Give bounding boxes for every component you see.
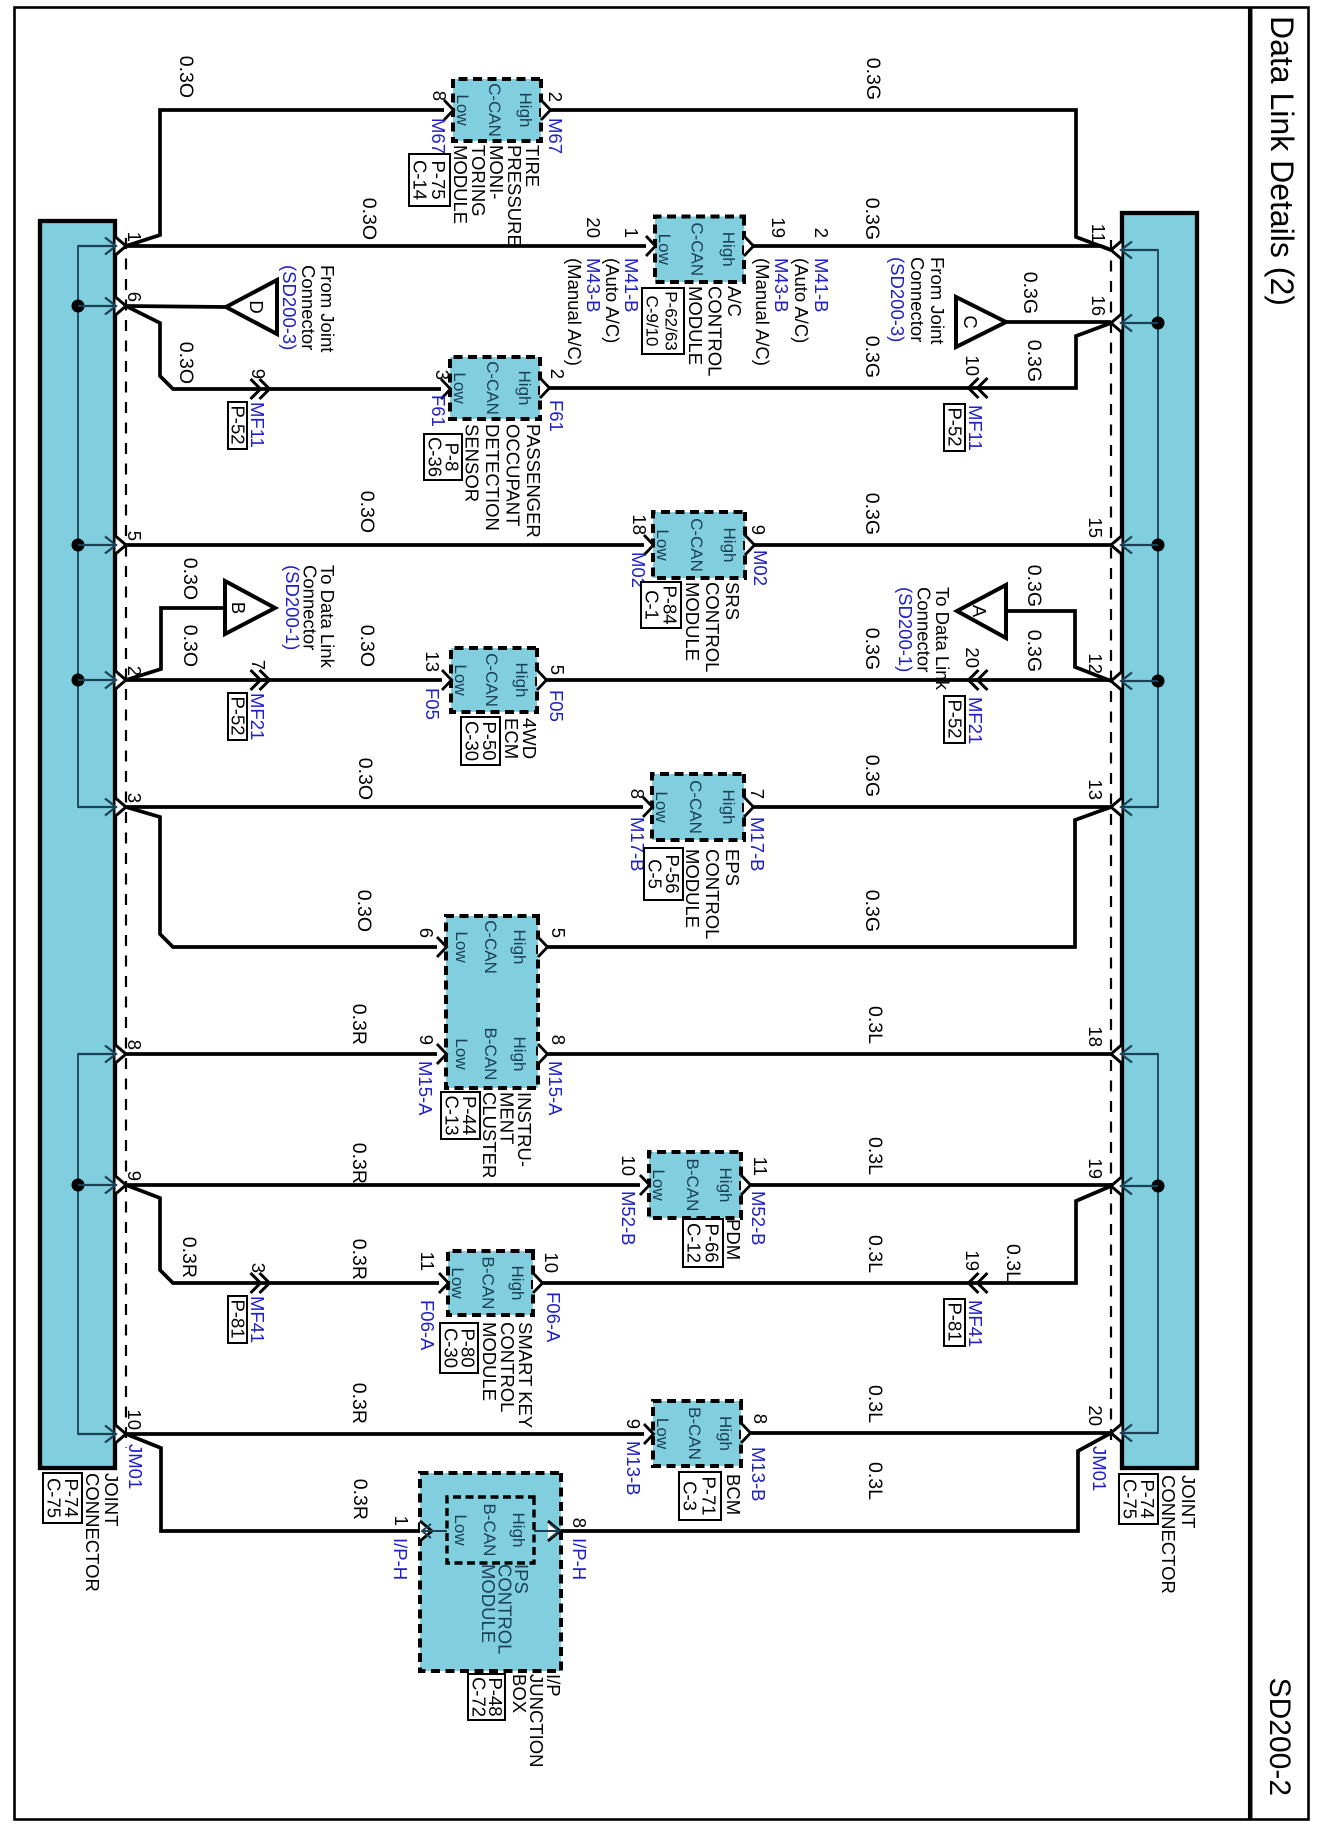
svg-text:MODULE: MODULE <box>685 286 706 365</box>
svg-text:Data Link Details (2): Data Link Details (2) <box>1264 16 1300 306</box>
triangle A (to data link connector SD200-1) <box>957 585 1006 638</box>
top bar internal C-CAN bus <box>1123 250 1158 807</box>
svg-text:0.3O: 0.3O <box>354 758 376 800</box>
wire SRS C-CAN High (0.3G) to pin 15 <box>755 543 1112 547</box>
bottom bar pin 6 <box>78 292 145 315</box>
wire size labels low side <box>348 198 380 1520</box>
wire PDM B-CAN Low (0.3R) to pin 9 <box>126 1183 640 1187</box>
svg-text:MODULE: MODULE <box>478 1564 499 1643</box>
svg-text:C: C <box>960 315 981 328</box>
wire M67 C-CAN Low (0.3O) to pin 1 <box>126 110 444 246</box>
svg-text:5: 5 <box>124 531 145 541</box>
wire smart key B-CAN High (0.3L) via MF41 to pin 19 <box>543 1186 1112 1283</box>
svg-text:High: High <box>509 1513 528 1548</box>
wire cluster B-CAN High (0.3L) to pin 18 <box>548 1052 1112 1056</box>
module M15-A instrument cluster <box>415 916 569 1178</box>
svg-text:C-30: C-30 <box>462 721 483 761</box>
svg-text:A/C: A/C <box>724 286 745 317</box>
svg-text:Low: Low <box>451 1514 470 1546</box>
svg-text:B-CAN: B-CAN <box>685 1407 704 1460</box>
svg-text:High: High <box>515 371 534 406</box>
svg-text:MF41: MF41 <box>247 1296 268 1343</box>
in-line connector MF21 pin 20 (high side) <box>944 647 988 744</box>
svg-text:M13-B: M13-B <box>623 1441 644 1496</box>
svg-text:High: High <box>716 1168 735 1203</box>
junction dot at bar pin 12 <box>1152 675 1165 688</box>
wire EPS C-CAN Low (0.3O) to pin 3 <box>126 805 643 809</box>
svg-text:(Auto A/C): (Auto A/C) <box>791 258 812 343</box>
svg-text:F61: F61 <box>428 395 449 427</box>
svg-text:12: 12 <box>1085 653 1106 674</box>
svg-text:CONTROL: CONTROL <box>705 286 726 376</box>
bottom bar pin 5 <box>78 531 145 554</box>
top bar internal B-CAN bus <box>1123 1054 1158 1433</box>
svg-text:19: 19 <box>1085 1158 1106 1179</box>
svg-text:Low: Low <box>655 234 674 266</box>
top bar pin 19 <box>1085 1158 1158 1195</box>
svg-text:P-52: P-52 <box>228 696 249 735</box>
svg-text:F06-A: F06-A <box>417 1300 438 1351</box>
top bar pin 11 <box>1088 224 1158 259</box>
svg-text:B-CAN: B-CAN <box>479 1257 498 1310</box>
wire smart key B-CAN Low (0.3R) via MF41 to pin 9 <box>126 1185 439 1283</box>
svg-text:C-72: C-72 <box>469 1677 490 1717</box>
svg-text:11: 11 <box>417 1252 438 1271</box>
svg-text:(Manual A/C): (Manual A/C) <box>752 258 773 366</box>
svg-text:F05: F05 <box>422 688 443 720</box>
svg-text:3: 3 <box>124 793 145 803</box>
svg-text:1: 1 <box>124 232 145 242</box>
svg-text:7: 7 <box>747 789 768 799</box>
svg-text:8: 8 <box>124 1040 145 1050</box>
svg-text:C-CAN: C-CAN <box>687 518 706 572</box>
module M52-B PDM <box>618 1152 771 1267</box>
svg-text:1: 1 <box>621 228 642 238</box>
svg-text:8: 8 <box>429 91 450 101</box>
svg-text:9: 9 <box>748 525 769 535</box>
svg-text:SENSOR: SENSOR <box>462 424 483 502</box>
bottom bar ref box P-74 C-75 <box>43 1473 82 1523</box>
svg-text:0.3G: 0.3G <box>862 58 884 100</box>
svg-text:0.3L: 0.3L <box>864 1385 886 1423</box>
svg-text:Low: Low <box>653 1418 672 1450</box>
svg-text:11: 11 <box>1088 224 1109 243</box>
wire size labels high side <box>861 58 886 1500</box>
svg-text:0.3G: 0.3G <box>861 198 883 240</box>
svg-text:JOINT: JOINT <box>1178 1475 1199 1528</box>
svg-text:15: 15 <box>1085 517 1106 538</box>
svg-text:I/P-H: I/P-H <box>569 1538 590 1580</box>
svg-text:7: 7 <box>248 660 269 670</box>
triangle B (to data link connector SD200-1) <box>225 581 275 634</box>
svg-text:B-CAN: B-CAN <box>481 1028 500 1081</box>
svg-text:(SD200-3): (SD200-3) <box>887 257 908 342</box>
svg-text:B-CAN: B-CAN <box>683 1159 702 1212</box>
svg-text:19: 19 <box>768 217 789 238</box>
svg-text:20: 20 <box>583 217 604 238</box>
svg-text:0.3L: 0.3L <box>864 1235 886 1273</box>
svg-text:(SD200-1): (SD200-1) <box>282 565 303 650</box>
svg-text:0.3G: 0.3G <box>861 890 883 932</box>
in-line connector MF11 pin 9 (low side) <box>228 369 270 449</box>
wire IPS B-CAN High (0.3L) to pin 20 <box>561 1433 1111 1531</box>
svg-text:M52-B: M52-B <box>618 1191 639 1246</box>
top bar pin 15 <box>1085 517 1158 554</box>
svg-text:0.3G: 0.3G <box>861 336 883 378</box>
svg-text:M43-B: M43-B <box>583 258 604 313</box>
svg-text:M52-B: M52-B <box>748 1191 769 1246</box>
svg-text:C-30: C-30 <box>441 1328 462 1368</box>
bottom bar internal C-CAN bus <box>78 246 114 807</box>
svg-text:MODULE: MODULE <box>479 1322 500 1401</box>
svg-text:C-75: C-75 <box>1120 1479 1141 1519</box>
svg-text:CONNECTOR: CONNECTOR <box>1158 1475 1179 1594</box>
bottom bar pin 9 <box>78 1171 145 1194</box>
svg-text:JM01: JM01 <box>1089 1446 1110 1491</box>
wire F61 C-CAN Low (0.3O) via MF11 to pin 6 <box>126 306 441 389</box>
svg-text:M13-B: M13-B <box>748 1447 769 1502</box>
svg-text:0.3G: 0.3G <box>1023 340 1045 382</box>
svg-text:Low: Low <box>453 94 472 126</box>
svg-text:C-CAN: C-CAN <box>481 920 500 974</box>
svg-text:M17-B: M17-B <box>747 817 768 872</box>
svg-text:P-81: P-81 <box>228 1299 249 1338</box>
svg-text:10: 10 <box>124 1409 145 1430</box>
svg-text:0.3O: 0.3O <box>356 491 378 533</box>
svg-text:P-52: P-52 <box>945 699 966 738</box>
in-line connector MF41 pin 19 (high side) <box>944 1250 988 1347</box>
svg-text:0.3R: 0.3R <box>348 1004 370 1045</box>
svg-text:0.3G: 0.3G <box>1019 272 1041 314</box>
svg-text:(Manual A/C): (Manual A/C) <box>564 258 585 366</box>
svg-text:M41-B: M41-B <box>621 258 642 313</box>
svg-text:8: 8 <box>627 789 648 799</box>
svg-text:SRS: SRS <box>722 582 743 620</box>
svg-text:B-CAN: B-CAN <box>480 1504 499 1557</box>
svg-text:16: 16 <box>1088 295 1109 316</box>
svg-text:C-3: C-3 <box>680 1481 701 1511</box>
wire from triangle A to pin 12 <box>1006 611 1111 681</box>
svg-text:A: A <box>969 605 990 618</box>
svg-text:(Auto A/C): (Auto A/C) <box>602 258 623 343</box>
wire cluster C-CAN High (0.3G) to pin 13 <box>548 807 1112 947</box>
svg-text:0.3O: 0.3O <box>175 342 197 384</box>
joint connector JM01 (bottom bar, low side) <box>40 221 115 1468</box>
wire PDM B-CAN High (0.3L) to pin 19 <box>751 1183 1112 1187</box>
svg-text:MODULE: MODULE <box>682 582 703 661</box>
svg-text:Connector: Connector <box>298 265 319 350</box>
svg-text:C-1: C-1 <box>642 590 663 620</box>
junction dot at bar pin 5 <box>72 539 85 552</box>
svg-text:2: 2 <box>545 92 566 102</box>
svg-text:JOINT: JOINT <box>101 1473 122 1526</box>
svg-text:10: 10 <box>541 1252 562 1273</box>
module M13-B BCM <box>623 1401 771 1520</box>
svg-text:Low: Low <box>448 1267 467 1299</box>
junction dot at bar pin 15 <box>1152 539 1165 552</box>
dashed line above bottom bar <box>125 238 127 1448</box>
svg-text:High: High <box>719 232 738 267</box>
svg-text:MF11: MF11 <box>247 402 268 448</box>
svg-text:0.3G: 0.3G <box>861 493 883 535</box>
svg-text:BCM: BCM <box>723 1474 744 1515</box>
svg-text:6: 6 <box>124 292 145 302</box>
svg-text:C-CAN: C-CAN <box>482 653 501 707</box>
svg-text:F61: F61 <box>546 400 567 432</box>
svg-text:Low: Low <box>451 664 470 696</box>
svg-text:C-13: C-13 <box>442 1095 463 1135</box>
svg-text:PASSENGER: PASSENGER <box>523 424 544 538</box>
wire from pin 6 to triangle D <box>126 306 226 307</box>
svg-text:PDM: PDM <box>723 1219 744 1260</box>
svg-text:M43-B: M43-B <box>771 258 792 313</box>
svg-text:2: 2 <box>124 666 145 676</box>
wire from triangle C to pin 16 <box>1006 320 1111 324</box>
svg-text:(SD200-3): (SD200-3) <box>279 265 300 350</box>
junction dot at bar pin 6 <box>72 300 85 313</box>
in-line connector MF21 pin 7 (low side) <box>228 660 270 741</box>
svg-text:JM01: JM01 <box>125 1444 146 1489</box>
svg-text:MODULE: MODULE <box>450 145 471 224</box>
svg-text:Low: Low <box>653 529 672 561</box>
svg-text:F06-A: F06-A <box>543 1292 564 1343</box>
svg-text:2: 2 <box>547 369 568 379</box>
junction dot at bar pin 16 <box>1152 317 1165 330</box>
svg-text:From Joint: From Joint <box>317 265 338 352</box>
svg-text:M41-B: M41-B <box>811 258 832 313</box>
triangle C (from joint connector SD200-3) <box>956 297 1006 347</box>
svg-text:0.3O: 0.3O <box>353 890 375 932</box>
top bar pin 18 <box>1085 1026 1158 1063</box>
svg-text:P-81: P-81 <box>945 1302 966 1341</box>
svg-text:3: 3 <box>432 370 453 380</box>
svg-text:0.3G: 0.3G <box>861 628 883 670</box>
wire from pin 2 to triangle B <box>126 608 225 680</box>
svg-text:High: High <box>510 930 529 965</box>
svg-text:CONTROL: CONTROL <box>702 582 723 672</box>
svg-text:20: 20 <box>1085 1405 1106 1426</box>
svg-text:OCCUPANT: OCCUPANT <box>503 424 524 526</box>
wire size labels near top bar <box>1002 272 1045 1282</box>
svg-text:SD200-2: SD200-2 <box>1263 1678 1296 1796</box>
svg-text:High: High <box>516 93 535 128</box>
svg-text:CONNECTOR: CONNECTOR <box>82 1473 103 1592</box>
svg-text:MF21: MF21 <box>965 697 986 744</box>
svg-text:13: 13 <box>422 651 443 672</box>
joint connector JM01 (top bar, C-CAN/B-CAN high side) <box>1122 213 1197 1468</box>
svg-text:C-5: C-5 <box>645 859 666 889</box>
svg-text:C-36: C-36 <box>425 437 446 477</box>
wire F61 C-CAN High (0.3G) via MF11 to pin 16 <box>550 323 1112 388</box>
svg-text:9: 9 <box>416 1035 437 1045</box>
svg-text:13: 13 <box>1085 779 1106 800</box>
svg-text:C-CAN: C-CAN <box>483 361 502 415</box>
svg-text:8: 8 <box>548 1035 569 1045</box>
svg-text:10: 10 <box>618 1155 639 1176</box>
svg-text:0.3O: 0.3O <box>179 625 201 667</box>
wire M67 C-CAN High (0.3G) to pin 11 <box>551 110 1112 250</box>
svg-text:F05: F05 <box>546 690 567 722</box>
svg-text:ECM: ECM <box>501 718 522 759</box>
svg-text:M15-A: M15-A <box>415 1061 436 1116</box>
svg-text:C-CAN: C-CAN <box>686 780 705 834</box>
svg-text:0.3O: 0.3O <box>358 198 380 240</box>
wire size labels near bottom bar <box>175 56 201 1278</box>
svg-text:1: 1 <box>391 1516 412 1526</box>
svg-text:MODULE: MODULE <box>682 849 703 928</box>
svg-text:BOX: BOX <box>509 1674 530 1713</box>
top bar pin 12 <box>1085 653 1158 690</box>
svg-text:High: High <box>508 1266 527 1301</box>
svg-text:8: 8 <box>750 1414 771 1424</box>
wire EPS C-CAN High (0.3G) to pin 13 <box>754 805 1112 809</box>
svg-text:5: 5 <box>548 928 569 938</box>
svg-text:CONTROL: CONTROL <box>702 849 723 939</box>
module M67 tire pressure monitoring module <box>409 79 566 247</box>
svg-text:Connector: Connector <box>907 257 928 342</box>
bottom bar pin 1 <box>78 232 145 255</box>
svg-text:0.3O: 0.3O <box>179 558 201 600</box>
svg-text:M15-A: M15-A <box>545 1061 566 1116</box>
wire BCM B-CAN High (0.3L) to pin 20 <box>751 1431 1112 1435</box>
svg-text:11: 11 <box>750 1157 771 1176</box>
module M02 SRS control module <box>628 512 771 672</box>
svg-text:EPS: EPS <box>722 849 743 886</box>
svg-text:High: High <box>512 663 531 698</box>
top bar pin 13 <box>1085 779 1158 816</box>
module F61 passenger occupant detection sensor <box>424 357 568 538</box>
top bar ref box P-74 C-75 <box>1119 1474 1158 1524</box>
svg-text:9: 9 <box>124 1171 145 1181</box>
svg-text:High: High <box>719 790 738 825</box>
wire 4WD ECM C-CAN Low (0.3O) via MF21 to pin 2 <box>126 678 442 682</box>
svg-text:C-9/10: C-9/10 <box>643 295 662 346</box>
wire IPS B-CAN Low (0.3R) to pin 10 <box>126 1434 420 1531</box>
svg-text:M67: M67 <box>545 118 566 154</box>
dashed line below top bar <box>1110 240 1112 1448</box>
top bar pin 20 <box>1085 1405 1158 1442</box>
bottom bar internal B-CAN bus <box>78 1054 114 1434</box>
svg-text:18: 18 <box>1085 1026 1106 1047</box>
in-line connector MF41 pin 3 (low side) <box>228 1263 270 1344</box>
svg-text:C-75: C-75 <box>44 1478 65 1518</box>
triangle D (from joint connector SD200-3) <box>226 280 277 334</box>
svg-text:MF11: MF11 <box>965 405 986 451</box>
svg-text:High: High <box>716 1416 735 1451</box>
svg-text:6: 6 <box>416 928 437 938</box>
svg-text:9: 9 <box>248 369 269 379</box>
svg-text:5: 5 <box>547 665 568 675</box>
svg-text:M02: M02 <box>750 550 771 586</box>
title separator line <box>1248 8 1253 1820</box>
bottom bar pin 8 <box>78 1040 145 1063</box>
svg-text:18: 18 <box>629 514 650 535</box>
module M41-B/M43-B A/C control module <box>564 217 832 377</box>
wire A/C module C-CAN High (0.3G) to pin 11 <box>754 246 1112 250</box>
svg-text:0.3R: 0.3R <box>178 1237 200 1278</box>
svg-text:Low: Low <box>452 1038 471 1070</box>
svg-text:C-14: C-14 <box>410 160 431 200</box>
svg-text:High: High <box>510 1037 529 1072</box>
module I/P-H IPS control module / IP junction box <box>390 1473 590 1768</box>
bottom bar pin 10 <box>78 1409 145 1443</box>
junction dot at bar pin 19 <box>1152 1180 1165 1193</box>
svg-text:19: 19 <box>962 1250 983 1271</box>
wire SRS C-CAN Low (0.3O) to pin 5 <box>126 543 644 547</box>
wire BCM B-CAN Low (0.3R) to pin 10 <box>126 1432 644 1436</box>
svg-text:0.3G: 0.3G <box>1023 565 1045 607</box>
svg-text:0.3L: 0.3L <box>1002 1244 1024 1282</box>
svg-text:MF41: MF41 <box>965 1300 986 1347</box>
svg-text:0.3R: 0.3R <box>348 1383 370 1424</box>
module M17-B EPS control module <box>627 774 768 939</box>
svg-text:C-CAN: C-CAN <box>485 83 504 137</box>
bottom bar pin 3 <box>78 793 145 816</box>
svg-text:0.3R: 0.3R <box>348 1239 370 1280</box>
junction dot at bar pin 2 <box>72 674 85 687</box>
svg-text:P-52: P-52 <box>228 405 249 444</box>
svg-text:P-62/63: P-62/63 <box>662 291 681 351</box>
in-line connector MF11 pin 10 (high side) <box>944 355 988 451</box>
svg-text:0.3L: 0.3L <box>864 1462 886 1500</box>
svg-text:M67: M67 <box>428 118 449 154</box>
svg-text:2: 2 <box>811 228 832 238</box>
svg-text:CLUSTER: CLUSTER <box>479 1092 500 1178</box>
svg-text:P-52: P-52 <box>945 407 966 446</box>
wire cluster C-CAN Low (0.3O) to pin 3 <box>126 807 437 947</box>
svg-text:0.3R: 0.3R <box>348 1143 370 1184</box>
wire cluster B-CAN Low (0.3R) to pin 8 <box>126 1052 437 1056</box>
svg-text:C-12: C-12 <box>684 1223 705 1263</box>
svg-text:MF21: MF21 <box>247 693 268 740</box>
svg-text:DETECTION: DETECTION <box>482 424 503 531</box>
svg-text:I/P-H: I/P-H <box>390 1538 411 1580</box>
svg-text:Low: Low <box>452 931 471 963</box>
svg-text:3: 3 <box>248 1263 269 1273</box>
svg-text:0.3G: 0.3G <box>1023 630 1045 672</box>
svg-text:0.3O: 0.3O <box>175 56 197 98</box>
svg-text:P-71: P-71 <box>699 1476 720 1515</box>
svg-text:Low: Low <box>649 1169 668 1201</box>
svg-text:0.3R: 0.3R <box>349 1479 371 1520</box>
module F06-A smart key control module <box>417 1251 564 1428</box>
svg-text:9: 9 <box>623 1419 644 1429</box>
svg-text:From Joint: From Joint <box>927 257 948 344</box>
svg-text:D: D <box>246 300 267 313</box>
svg-text:10: 10 <box>962 355 983 376</box>
svg-text:0.3L: 0.3L <box>864 1006 886 1044</box>
svg-text:0.3O: 0.3O <box>356 625 378 667</box>
svg-text:Low: Low <box>652 791 671 823</box>
module F05 4WD ECM <box>422 648 568 765</box>
bottom bar pin 2 <box>78 666 145 689</box>
junction dot at bar pin 9 <box>72 1179 85 1192</box>
svg-text:0.3G: 0.3G <box>861 755 883 797</box>
top bar pin 16 <box>1088 295 1158 332</box>
svg-text:C-CAN: C-CAN <box>688 222 707 276</box>
svg-text:0.3L: 0.3L <box>864 1137 886 1175</box>
svg-text:8: 8 <box>569 1518 590 1528</box>
svg-text:(SD200-1): (SD200-1) <box>895 587 916 672</box>
svg-text:20: 20 <box>962 647 983 668</box>
svg-text:High: High <box>720 528 739 563</box>
wire 4WD ECM C-CAN High (0.3G) via MF21 to pin 12 <box>547 678 1112 682</box>
svg-text:B: B <box>228 602 249 614</box>
wire A/C module C-CAN Low (0.3O) to pin 1 <box>126 244 646 248</box>
